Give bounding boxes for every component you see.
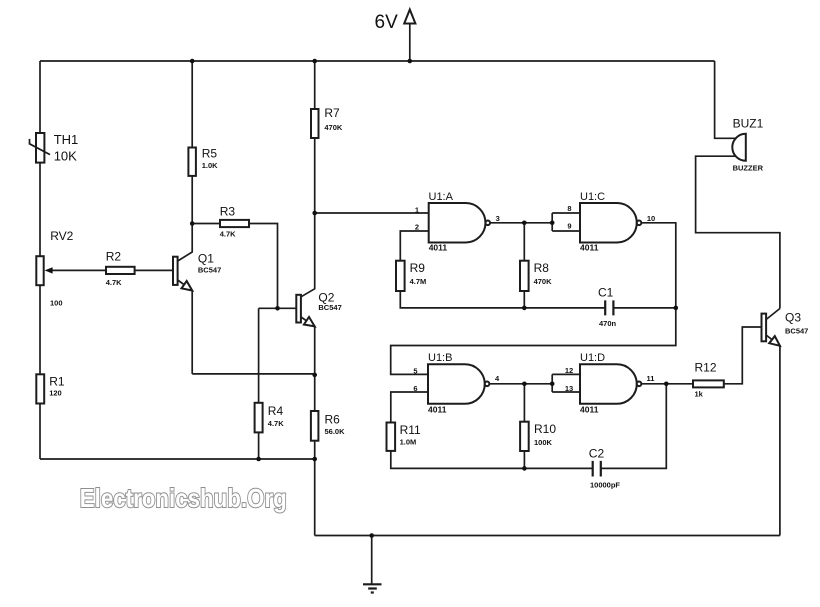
wire R12 to Q3 base: [724, 327, 762, 384]
svg-text:U1:A: U1:A: [429, 191, 454, 203]
node ground rail junction: [369, 533, 374, 538]
svg-text:3: 3: [496, 214, 500, 223]
svg-text:R10: R10: [534, 422, 556, 436]
wire bottom-left rail: [40, 458, 315, 460]
wire U1:D pin12 stub: [552, 373, 580, 375]
svg-text:470K: 470K: [324, 123, 343, 132]
svg-text:4.7K: 4.7K: [106, 278, 122, 287]
node C1 right net junction: [674, 306, 679, 311]
wire R8 top: [523, 223, 525, 261]
wire TH1 to RV2: [39, 163, 41, 257]
resistor R11: [387, 423, 396, 451]
svg-text:8: 8: [567, 204, 571, 213]
wire node to R3 left: [192, 223, 220, 225]
svg-text:R1: R1: [49, 375, 65, 389]
thermistor TH1: [30, 133, 51, 163]
node Q1-Q2 emitter junction: [312, 373, 317, 378]
svg-text:4011: 4011: [580, 243, 599, 253]
wire top 6V power rail: [40, 60, 715, 62]
svg-text:R7: R7: [324, 106, 340, 120]
svg-text:9: 9: [567, 222, 571, 231]
wire R9 bottom to C1 net: [400, 291, 605, 308]
node top rail R5 junction: [190, 59, 195, 64]
svg-text:10: 10: [647, 214, 655, 223]
wire Q2 base horizontal: [259, 307, 297, 309]
wire U1:D output to R12: [641, 383, 693, 385]
svg-text:BC547: BC547: [198, 265, 221, 274]
capacitor C2: [593, 461, 601, 477]
svg-text:6: 6: [413, 384, 417, 393]
node top rail R7 junction: [312, 59, 317, 64]
svg-text:C1: C1: [598, 286, 614, 300]
wire R7 to pin1 node: [314, 138, 316, 213]
wire Q2 base node down to R4: [258, 308, 260, 403]
wire R6 down to bottom rail corner: [314, 441, 316, 536]
resistor R3: [220, 220, 249, 227]
wire RV2 to R1: [39, 285, 41, 374]
wire Q3 collector diagonal: [766, 309, 780, 320]
op-amp U1:B nand gate: [428, 364, 489, 404]
resistor R12: [693, 380, 724, 387]
resistor R8: [520, 261, 529, 291]
wire top rail to R7: [314, 61, 316, 109]
svg-text:R3: R3: [220, 205, 236, 219]
wire U1:C output feedback to U1:B pin5: [391, 223, 676, 375]
wire U1:D pin13 stub: [552, 391, 580, 393]
capacitor C1: [605, 300, 613, 315]
wire top rail to buzzer top pin: [715, 61, 736, 138]
svg-text:4.7K: 4.7K: [268, 419, 284, 428]
svg-text:TH1: TH1: [54, 132, 79, 147]
transistor Q3: [762, 314, 780, 346]
op-amp U1:D nand gate: [580, 364, 641, 404]
node R4 bottom rail junction: [256, 457, 261, 462]
resistor R2: [106, 267, 135, 274]
node R8 bottom net junction: [522, 306, 527, 311]
svg-text:R9: R9: [410, 261, 426, 275]
resistor R10: [520, 422, 529, 451]
op-amp U1:A nand gate: [429, 203, 490, 243]
svg-text:1: 1: [415, 205, 419, 214]
wire bottom ground rail: [315, 535, 780, 537]
wire R5 to R3 node: [191, 176, 193, 224]
resistor R1: [36, 374, 44, 403]
wire top rail to R5: [191, 61, 193, 148]
svg-text:R8: R8: [534, 261, 550, 275]
wire 6V supply stem: [409, 24, 411, 62]
svg-text:2: 2: [415, 222, 419, 231]
node R7-pin1-Q2 junction: [312, 211, 317, 216]
wire Q1 collector: [178, 224, 193, 262]
svg-text:56.0K: 56.0K: [325, 427, 346, 436]
svg-text:RV2: RV2: [50, 229, 73, 243]
wire U1:C pin8 stub: [552, 212, 580, 214]
svg-text:BC547: BC547: [318, 303, 341, 312]
svg-text:Q1: Q1: [198, 251, 214, 265]
wire pin1 node down to Q2 collector: [301, 213, 315, 297]
wire R2 to Q1 base: [135, 269, 173, 271]
svg-text:120: 120: [49, 389, 62, 398]
transistor Q2: [296, 295, 314, 327]
wire R4 to bottom-left rail: [258, 432, 260, 459]
resistor R9: [396, 261, 405, 291]
resistor R4: [255, 403, 263, 433]
svg-text:10000pF: 10000pF: [590, 481, 620, 490]
svg-text:11: 11: [647, 374, 655, 383]
wire Q2 emitter diagonal: [301, 317, 315, 375]
ground: [363, 536, 382, 593]
svg-text:12: 12: [565, 366, 573, 375]
wire Q1 emitter down: [178, 280, 193, 374]
svg-text:470K: 470K: [534, 277, 553, 286]
svg-text:U1:B: U1:B: [428, 352, 452, 364]
svg-text:BC547: BC547: [785, 326, 808, 335]
wire R10 bottom: [523, 451, 525, 468]
wire C1 right to net corner: [613, 307, 675, 309]
wire R3 right down to Q2 base node: [249, 224, 278, 309]
wire U1:A output to U1:C input: [490, 222, 552, 224]
svg-text:R5: R5: [202, 146, 218, 160]
potentiometer RV2: [36, 256, 52, 285]
svg-text:R2: R2: [106, 250, 122, 264]
svg-text:1.0K: 1.0K: [202, 161, 218, 170]
resistor R6: [311, 411, 319, 441]
svg-text:U1:C: U1:C: [580, 191, 605, 203]
resistor R5: [188, 148, 196, 176]
svg-text:Q3: Q3: [785, 311, 801, 325]
svg-text:10K: 10K: [54, 149, 77, 164]
svg-text:BUZ1: BUZ1: [733, 117, 764, 131]
op-amp U1:C nand gate: [580, 203, 641, 243]
svg-text:4.7K: 4.7K: [220, 230, 236, 239]
wire U1:C pin9 stub: [552, 230, 580, 232]
wire U1:D input bar: [551, 374, 553, 392]
svg-text:R11: R11: [400, 423, 421, 437]
wire Q3 emitter diagonal and down to ground rail: [766, 335, 780, 536]
wire Q2 emitter node to R6: [314, 375, 316, 411]
svg-text:5: 5: [413, 366, 417, 375]
svg-text:1k: 1k: [695, 390, 704, 399]
node U1:D input junction: [550, 382, 555, 387]
svg-text:Electronicshub.Org: Electronicshub.Org: [80, 483, 287, 513]
svg-text:100: 100: [50, 299, 63, 308]
wire U1:B pin6 to R11: [391, 392, 428, 423]
wire R8 bottom: [523, 291, 525, 308]
node U1:A output R8 junction: [522, 221, 527, 226]
wire pin1 node to U1:A pin 1: [315, 212, 429, 214]
svg-text:4.7M: 4.7M: [410, 277, 427, 286]
svg-text:470n: 470n: [599, 319, 617, 328]
wire buzzer bottom pin to Q3 collector: [696, 156, 780, 308]
svg-text:13: 13: [565, 384, 573, 393]
svg-text:1.0M: 1.0M: [400, 438, 417, 447]
wire left rail from top rail to TH1: [39, 61, 41, 133]
node R6 line bottom-left rail junction: [312, 457, 317, 462]
node R10 bottom net junction: [522, 466, 527, 471]
svg-text:R12: R12: [695, 361, 717, 375]
svg-text:4: 4: [495, 374, 500, 383]
svg-text:BUZZER: BUZZER: [733, 164, 764, 173]
node U1:C input junction: [550, 221, 555, 226]
svg-text:4011: 4011: [580, 404, 599, 414]
svg-text:100K: 100K: [534, 438, 553, 447]
svg-text:C2: C2: [589, 447, 605, 461]
node top rail 6V junction: [408, 59, 413, 64]
svg-text:R6: R6: [325, 413, 341, 427]
wire Q1 emitter to Q2 emitter node: [192, 373, 315, 375]
svg-text:U1:D: U1:D: [580, 352, 605, 364]
wire C2 right to U1:D output node: [601, 384, 667, 469]
wire R10 top: [523, 384, 525, 422]
wire R11 bottom to C2 net: [391, 451, 593, 469]
node Q2 base junction: [275, 306, 280, 311]
buzzer BUZ1: [732, 134, 745, 161]
svg-text:R4: R4: [268, 404, 284, 418]
wire R1 to bottom-left rail: [39, 404, 41, 460]
node U1:D output junction: [664, 382, 669, 387]
resistor R7: [311, 109, 319, 138]
transistor Q1: [173, 257, 192, 291]
svg-text:4011: 4011: [428, 404, 447, 414]
svg-text:6V: 6V: [375, 12, 399, 33]
node U1:B output R10 junction: [522, 382, 527, 387]
wire U1:A pin2 to R9: [400, 231, 428, 261]
wire U1:B output to U1:D input: [489, 383, 552, 385]
power 6V arrow: [404, 10, 415, 24]
svg-text:4011: 4011: [429, 243, 448, 253]
wire RV2 wiper to R2: [50, 269, 106, 271]
node R5-R3-Q1 junction: [190, 221, 195, 226]
wire U1:C input bar: [551, 213, 553, 231]
